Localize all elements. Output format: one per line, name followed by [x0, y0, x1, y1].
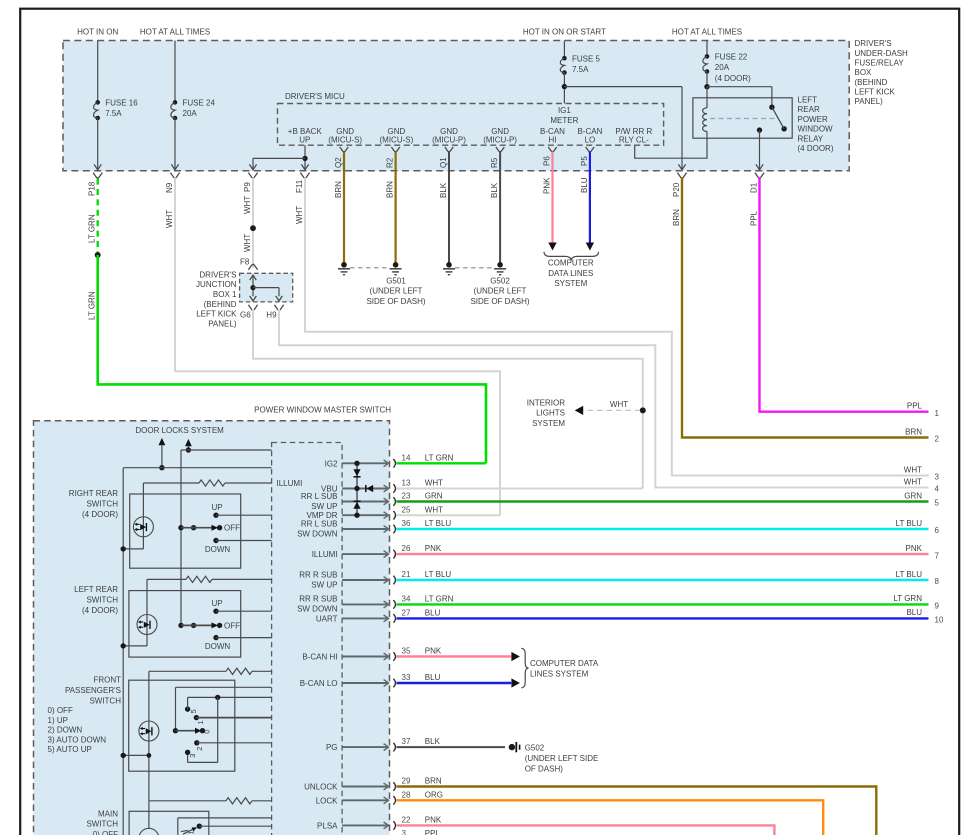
svg-text:R5: R5 [490, 157, 499, 168]
svg-text:14: 14 [402, 453, 411, 462]
svg-text:WHT: WHT [165, 210, 174, 228]
svg-text:WHT: WHT [243, 196, 252, 214]
svg-text:5: 5 [935, 499, 940, 508]
svg-text:UP: UP [211, 503, 222, 512]
svg-text:RIGHT REAR: RIGHT REAR [69, 489, 118, 498]
svg-text:29: 29 [402, 777, 411, 786]
svg-text:(MICU-S): (MICU-S) [380, 135, 414, 144]
svg-text:(UNDER LEFT: (UNDER LEFT [474, 287, 527, 296]
svg-text:HI: HI [549, 135, 557, 144]
svg-text:LT GRN: LT GRN [893, 594, 922, 603]
svg-text:R2: R2 [386, 157, 395, 168]
svg-text:(4 DOOR): (4 DOOR) [82, 510, 118, 519]
svg-text:PNK: PNK [906, 544, 923, 553]
svg-text:BLU: BLU [425, 673, 441, 682]
svg-text:2: 2 [935, 435, 940, 444]
svg-text:P9: P9 [243, 182, 252, 192]
svg-text:13: 13 [402, 479, 411, 488]
svg-text:LEFT KICK: LEFT KICK [196, 310, 237, 319]
svg-text:B-CAN HI: B-CAN HI [302, 653, 337, 662]
svg-text:(BEHIND: (BEHIND [855, 78, 888, 87]
svg-text:0) OFF: 0) OFF [48, 706, 73, 715]
svg-text:OFF: OFF [224, 621, 240, 630]
svg-text:8: 8 [935, 577, 940, 586]
svg-text:PNK: PNK [425, 544, 442, 553]
svg-text:(UNDER LEFT: (UNDER LEFT [370, 287, 423, 296]
svg-text:Q1: Q1 [439, 157, 448, 168]
svg-text:SWITCH: SWITCH [86, 596, 118, 605]
svg-text:SYSTEM: SYSTEM [532, 419, 565, 428]
svg-text:FRONT: FRONT [93, 676, 121, 685]
svg-text:WHT: WHT [295, 206, 304, 224]
svg-text:DRIVER'S: DRIVER'S [199, 270, 236, 279]
svg-text:BOX: BOX [855, 68, 873, 77]
svg-text:20A: 20A [183, 109, 198, 118]
svg-text:SWITCH: SWITCH [86, 500, 118, 509]
svg-text:LO: LO [585, 135, 596, 144]
svg-text:PG: PG [326, 743, 338, 752]
svg-text:PANEL): PANEL) [855, 97, 884, 106]
svg-text:P5: P5 [580, 156, 589, 166]
svg-text:BLK: BLK [425, 737, 441, 746]
svg-text:(BEHIND: (BEHIND [204, 300, 237, 309]
svg-text:(UNDER LEFT SIDE: (UNDER LEFT SIDE [525, 754, 599, 763]
svg-text:28: 28 [402, 790, 411, 799]
svg-text:PPL: PPL [425, 829, 441, 835]
svg-text:23: 23 [402, 492, 411, 501]
svg-text:1: 1 [935, 409, 940, 418]
svg-text:BLU: BLU [425, 609, 441, 618]
svg-text:BLU: BLU [906, 608, 922, 617]
svg-text:BRN: BRN [672, 209, 681, 226]
svg-text:OFF: OFF [224, 524, 240, 533]
svg-text:PANEL): PANEL) [208, 319, 237, 328]
svg-text:LIGHTS: LIGHTS [536, 409, 565, 418]
svg-text:5: 5 [189, 709, 198, 713]
svg-text:JUNCTION: JUNCTION [196, 280, 237, 289]
svg-text:LT GRN: LT GRN [88, 214, 97, 243]
svg-text:FUSE/RELAY: FUSE/RELAY [855, 59, 905, 68]
svg-text:LT GRN: LT GRN [88, 291, 97, 320]
svg-text:P20: P20 [672, 182, 681, 197]
svg-text:N9: N9 [165, 182, 174, 193]
svg-text:20A: 20A [715, 63, 730, 72]
svg-text:P6: P6 [543, 156, 552, 166]
svg-text:37: 37 [402, 737, 411, 746]
svg-text:BRN: BRN [425, 777, 442, 786]
svg-text:BLU: BLU [580, 177, 589, 193]
svg-text:26: 26 [402, 544, 411, 553]
svg-text:25: 25 [402, 505, 411, 514]
svg-text:UNDER-DASH: UNDER-DASH [855, 49, 909, 58]
svg-text:3) AUTO DOWN: 3) AUTO DOWN [48, 735, 107, 744]
svg-text:LT BLU: LT BLU [425, 570, 452, 579]
svg-text:SYSTEM: SYSTEM [554, 279, 587, 288]
svg-text:OF DASH): OF DASH) [525, 765, 564, 774]
svg-text:G501: G501 [386, 276, 406, 285]
svg-text:2) DOWN: 2) DOWN [48, 726, 83, 735]
svg-text:PPL: PPL [907, 402, 923, 411]
svg-text:SW UP: SW UP [311, 581, 337, 590]
svg-text:(4 DOOR): (4 DOOR) [715, 74, 751, 83]
svg-text:Q2: Q2 [334, 157, 343, 168]
svg-text:LEFT REAR: LEFT REAR [74, 585, 118, 594]
svg-text:RR R SUB: RR R SUB [299, 595, 337, 604]
svg-text:IG1: IG1 [558, 106, 571, 115]
svg-text:PNK: PNK [425, 647, 442, 656]
svg-text:IG2: IG2 [325, 459, 338, 468]
svg-text:RR L SUB: RR L SUB [301, 492, 338, 501]
svg-text:9: 9 [935, 602, 940, 611]
svg-text:(4 DOOR): (4 DOOR) [798, 144, 834, 153]
svg-text:WHT: WHT [425, 479, 443, 488]
svg-text:3: 3 [935, 473, 940, 482]
svg-text:UART: UART [316, 614, 338, 623]
svg-text:0) OFF: 0) OFF [93, 830, 118, 835]
svg-text:LT GRN: LT GRN [425, 595, 454, 604]
svg-text:(MICU-S): (MICU-S) [328, 135, 362, 144]
svg-text:BLK: BLK [439, 182, 448, 198]
svg-text:RR L SUB: RR L SUB [301, 520, 338, 529]
svg-text:33: 33 [402, 673, 411, 682]
svg-text:RELAY: RELAY [798, 134, 824, 143]
svg-text:G6: G6 [240, 311, 251, 320]
svg-text:RLY CL-: RLY CL- [619, 135, 649, 144]
svg-text:34: 34 [402, 595, 411, 604]
svg-text:LT BLU: LT BLU [896, 519, 923, 528]
svg-text:LT BLU: LT BLU [896, 570, 923, 579]
svg-text:UP: UP [211, 599, 222, 608]
svg-text:SWITCH: SWITCH [89, 696, 121, 705]
svg-text:HOT IN ON: HOT IN ON [77, 28, 118, 37]
svg-text:B-CAN LO: B-CAN LO [300, 679, 338, 688]
svg-text:PLSA: PLSA [317, 821, 338, 830]
svg-text:WHT: WHT [610, 400, 628, 409]
svg-text:DOWN: DOWN [205, 642, 231, 651]
svg-text:SWITCH: SWITCH [86, 820, 118, 829]
svg-text:1: 1 [196, 720, 205, 724]
svg-text:RR R SUB: RR R SUB [299, 571, 337, 580]
svg-text:INTERIOR: INTERIOR [527, 398, 565, 407]
svg-text:HOT AT ALL TIMES: HOT AT ALL TIMES [140, 28, 210, 37]
svg-text:7.5A: 7.5A [572, 65, 589, 74]
svg-text:(MICU-P): (MICU-P) [483, 135, 517, 144]
svg-text:UNLOCK: UNLOCK [304, 783, 338, 792]
svg-text:3: 3 [402, 829, 407, 835]
svg-text:LEFT KICK: LEFT KICK [855, 87, 896, 96]
svg-text:ILLUMI: ILLUMI [312, 550, 338, 559]
svg-text:FUSE 24: FUSE 24 [183, 99, 216, 108]
svg-text:GRN: GRN [904, 491, 922, 500]
svg-text:5) AUTO UP: 5) AUTO UP [48, 745, 92, 754]
svg-text:WINDOW: WINDOW [798, 125, 834, 134]
svg-text:2: 2 [195, 747, 204, 751]
svg-text:WHT: WHT [243, 234, 252, 252]
svg-text:ILLUMI: ILLUMI [277, 479, 303, 488]
svg-text:FUSE 16: FUSE 16 [105, 99, 138, 108]
svg-text:FUSE 5: FUSE 5 [572, 54, 601, 63]
svg-text:WHT: WHT [904, 465, 922, 474]
svg-text:10: 10 [935, 616, 944, 625]
svg-text:35: 35 [402, 647, 411, 656]
svg-text:SW DOWN: SW DOWN [297, 605, 338, 614]
svg-text:4: 4 [935, 485, 940, 494]
svg-text:SW UP: SW UP [311, 502, 337, 511]
svg-text:DRIVER'S MICU: DRIVER'S MICU [285, 92, 345, 101]
svg-text:(4 DOOR): (4 DOOR) [82, 606, 118, 615]
svg-text:3: 3 [188, 754, 197, 758]
svg-text:DOOR LOCKS SYSTEM: DOOR LOCKS SYSTEM [135, 426, 224, 435]
svg-text:PNK: PNK [425, 816, 442, 825]
svg-text:F8: F8 [240, 258, 250, 267]
svg-text:SIDE OF DASH): SIDE OF DASH) [366, 297, 425, 306]
svg-text:7: 7 [935, 551, 940, 560]
svg-text:0: 0 [202, 730, 211, 734]
svg-text:HOT IN ON OR START: HOT IN ON OR START [523, 28, 606, 37]
svg-text:PNK: PNK [543, 177, 552, 194]
svg-text:1: 1 [187, 830, 196, 834]
svg-text:LOCK: LOCK [316, 796, 338, 805]
svg-text:COMPUTER DATA: COMPUTER DATA [530, 659, 599, 668]
svg-text:POWER: POWER [798, 115, 828, 124]
svg-text:6: 6 [935, 526, 940, 535]
svg-text:D1: D1 [749, 182, 758, 193]
svg-text:G502: G502 [490, 276, 510, 285]
svg-text:LINES SYSTEM: LINES SYSTEM [530, 669, 589, 678]
svg-text:SW DOWN: SW DOWN [297, 530, 338, 539]
svg-text:HOT AT ALL TIMES: HOT AT ALL TIMES [672, 28, 742, 37]
svg-text:WHT: WHT [904, 477, 922, 486]
svg-text:7.5A: 7.5A [105, 109, 122, 118]
svg-text:F11: F11 [295, 179, 304, 193]
svg-text:BLK: BLK [490, 182, 499, 198]
svg-text:PASSENGER'S: PASSENGER'S [65, 686, 121, 695]
svg-text:DRIVER'S: DRIVER'S [855, 39, 892, 48]
svg-text:LT BLU: LT BLU [425, 519, 452, 528]
svg-text:36: 36 [402, 519, 411, 528]
svg-text:BRN: BRN [386, 181, 395, 198]
svg-text:POWER WINDOW MASTER SWITCH: POWER WINDOW MASTER SWITCH [254, 406, 391, 415]
svg-text:WHT: WHT [425, 505, 443, 514]
svg-text:22: 22 [402, 816, 411, 825]
svg-text:REAR: REAR [798, 105, 820, 114]
svg-text:P18: P18 [88, 181, 97, 196]
svg-text:METER: METER [550, 116, 578, 125]
svg-text:PPL: PPL [749, 210, 758, 226]
svg-text:UP: UP [299, 135, 310, 144]
svg-text:BRN: BRN [905, 427, 922, 436]
svg-text:SIDE OF DASH): SIDE OF DASH) [470, 297, 529, 306]
svg-text:(MICU-P): (MICU-P) [432, 135, 466, 144]
svg-text:ORG: ORG [425, 790, 443, 799]
svg-text:MAIN: MAIN [98, 809, 118, 818]
svg-text:GRN: GRN [425, 492, 443, 501]
svg-text:H9: H9 [266, 311, 277, 320]
svg-text:DOWN: DOWN [205, 545, 231, 554]
svg-text:27: 27 [402, 609, 411, 618]
svg-text:BRN: BRN [334, 181, 343, 198]
svg-text:LEFT: LEFT [798, 96, 818, 105]
svg-text:DATA LINES: DATA LINES [548, 269, 593, 278]
svg-text:FUSE 22: FUSE 22 [715, 53, 748, 62]
svg-text:G502: G502 [525, 743, 545, 752]
svg-text:COMPUTER: COMPUTER [548, 259, 594, 268]
svg-text:LT GRN: LT GRN [425, 453, 454, 462]
svg-text:21: 21 [402, 570, 411, 579]
svg-text:BOX 1: BOX 1 [213, 290, 237, 299]
svg-text:1) UP: 1) UP [48, 716, 68, 725]
